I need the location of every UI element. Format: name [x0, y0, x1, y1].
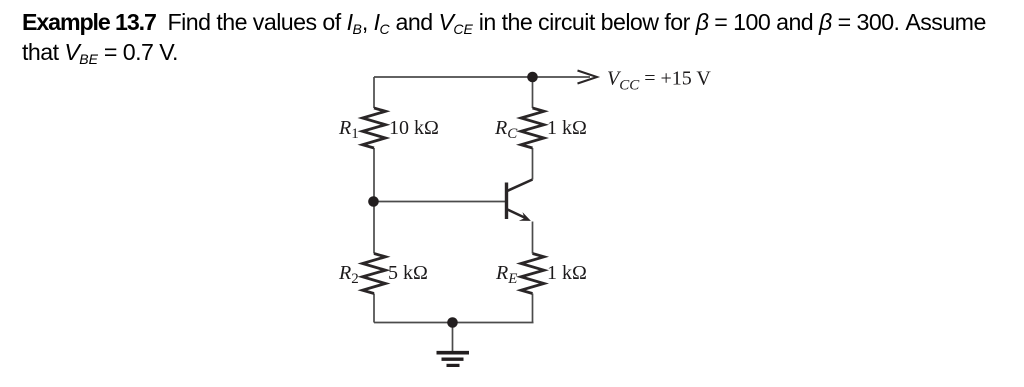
svg-text:R1: R1 [338, 117, 359, 142]
svg-text:1 kΩ: 1 kΩ [547, 117, 587, 139]
svg-text:RE: RE [495, 262, 517, 287]
svg-text:10 kΩ: 10 kΩ [389, 117, 439, 139]
svg-text:VCC = +15 V: VCC = +15 V [607, 68, 711, 94]
svg-text:5 kΩ: 5 kΩ [388, 262, 428, 284]
svg-text:1 kΩ: 1 kΩ [547, 262, 587, 284]
svg-text:R2: R2 [338, 262, 359, 287]
svg-text:RC: RC [494, 117, 518, 142]
